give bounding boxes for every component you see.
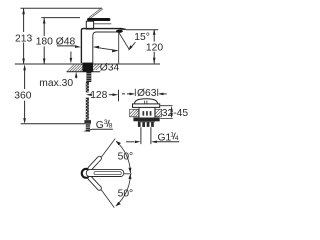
- top view: 50deg arc upper: [116, 141, 131, 173]
- flexible hose upper part (braided): [86, 82, 89, 120]
- dimension 128: [86, 90, 119, 102]
- max.30 upper arrow: [70, 52, 73, 64]
- top view: handle rotated up 50deg: [87, 155, 102, 171]
- extension line from aerator to 120 dim: [126, 29, 158, 31]
- label G1 1/4 with underline leader arrows: [126, 131, 179, 143]
- top view: handle horizontal inner line: [94, 172, 121, 175]
- svg-text:max.30: max.30: [39, 78, 73, 89]
- top view: swivel angle leg upper: [91, 139, 116, 172]
- deck hatch left of base: [67, 64, 83, 71]
- basin deck hatched, left piece: [130, 109, 139, 117]
- spout arm top edge line: [94, 23, 112, 25]
- svg-text:32-45: 32-45: [162, 108, 189, 119]
- body inner line / spout underside: [93, 32, 117, 63]
- deck bottom line: [67, 71, 101, 73]
- svg-text:128: 128: [90, 90, 107, 101]
- faucet base block: [82, 63, 93, 72]
- svg-text:120: 120: [146, 43, 163, 54]
- hose end reference line: [21, 123, 91, 125]
- hose G3/8 threaded tip: [86, 124, 90, 130]
- extension line top (raised lever height ref): [21, 7, 103, 9]
- dimension 120: [146, 29, 163, 64]
- svg-text:Ø34: Ø34: [100, 62, 120, 73]
- drain dimension Ø63: [122, 88, 167, 99]
- top view: 50deg arc lower: [116, 174, 132, 207]
- drain dome cap: [134, 99, 157, 104]
- hose connector nut: [84, 120, 91, 123]
- drain tail tube G1 1/4: [141, 127, 151, 144]
- max.30 lower arrow: [75, 72, 78, 79]
- extension line lever rest height ref: [41, 17, 80, 19]
- svg-text:Ø63: Ø63: [137, 88, 157, 99]
- dimension 180: [36, 18, 53, 65]
- basin deck hatched, right piece: [155, 109, 161, 117]
- svg-text:180: 180: [36, 37, 53, 48]
- svg-text:50°: 50°: [118, 152, 134, 163]
- svg-text:360: 360: [14, 91, 31, 102]
- dimension 360: [14, 64, 31, 124]
- threaded shank: [86, 72, 91, 82]
- svg-text:8: 8: [109, 123, 113, 130]
- label G3/8 with underline leader arrow: [83, 119, 113, 132]
- svg-text:4: 4: [175, 135, 179, 142]
- drain lock nut: [133, 118, 159, 122]
- top view: faucet body ring: [82, 169, 91, 178]
- lever raised outline: [89, 8, 102, 18]
- deck hatch right of base: [93, 64, 100, 70]
- svg-text:15°: 15°: [134, 32, 150, 43]
- drain body between deck: [139, 108, 155, 118]
- handle neck: [86, 21, 93, 29]
- top view: swivel angle leg lower: [91, 175, 115, 208]
- water jet 15 deg line with arrowhead: [119, 33, 135, 51]
- dimension 32-45: [160, 106, 189, 119]
- aerator: [116, 30, 123, 33]
- spout reach double arrow: [93, 46, 118, 53]
- water jet vertical reference line: [118, 32, 120, 63]
- top view: handle rotated down 50deg: [87, 175, 102, 191]
- svg-text:50°: 50°: [118, 188, 134, 199]
- drain flange plate: [133, 104, 160, 108]
- spout lip wedge: [121, 28, 126, 30]
- svg-text:213: 213: [15, 33, 32, 44]
- lever handle rest position: [87, 18, 110, 21]
- drain tail thread teeth: [138, 122, 155, 127]
- mounting deck top line: [15, 63, 160, 65]
- faucet body outline (left edge + top + spout): [81, 28, 126, 63]
- dimension 213: [15, 8, 32, 64]
- top view: handle horizontal: [86, 170, 124, 177]
- label Ø48 with underline leader arrow to faucet body: [56, 37, 99, 49]
- top view: horizontal reference stub: [124, 173, 132, 175]
